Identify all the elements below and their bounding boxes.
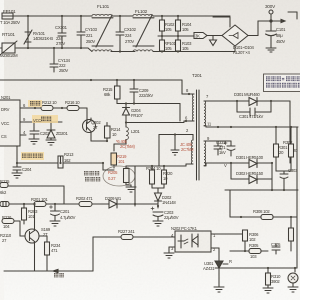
capacitor CX101 <box>58 16 66 48</box>
transformer T201 lower secondary <box>204 141 206 166</box>
resistor R301 <box>274 127 279 171</box>
wire: mid rail from pin11 <box>206 126 298 128</box>
capacitor C101 <box>266 21 277 48</box>
wire: bottom right rail <box>223 267 297 269</box>
diode D202 <box>155 193 162 208</box>
junction dots AC section <box>27 15 179 53</box>
note box <box>264 74 302 92</box>
wire: primary top rail <box>0 79 182 81</box>
transformer T201 upper secondary <box>204 101 208 127</box>
choke FL102 <box>133 14 154 51</box>
wire: into bridge <box>213 17 235 52</box>
resistor R214 <box>105 123 111 142</box>
ground aux <box>171 150 179 155</box>
resistor R308 <box>261 215 273 220</box>
capacitor C209 <box>130 80 138 95</box>
bridge rectifier D101-D104 RL207 <box>222 25 248 46</box>
yellow highlight vcc <box>32 115 58 123</box>
过流保护 <box>22 154 43 158</box>
resistor R311 <box>289 217 294 251</box>
IC N201 <box>0 100 28 146</box>
capacitor CY103 <box>77 16 85 48</box>
varistor RV101 <box>24 16 32 48</box>
resistor R212 <box>41 106 53 111</box>
capacitor C331 <box>206 141 231 155</box>
wire: drive line pin6 <box>28 107 87 109</box>
capacitor C305 <box>272 244 280 254</box>
red annotation texts <box>108 139 194 181</box>
resistor R220 <box>162 170 167 184</box>
capacitor CY134 <box>50 48 58 72</box>
wire: aux winding feed <box>159 135 193 167</box>
resistor R202 <box>79 202 92 207</box>
transistor Q202 <box>83 108 96 141</box>
yellow highlight protect <box>21 152 44 160</box>
ground below C201 <box>50 221 60 226</box>
capacitor C202 <box>30 131 39 139</box>
resistor R219 <box>111 153 117 168</box>
capacitor C302 <box>224 141 235 156</box>
note box CJK text <box>266 76 302 87</box>
choke FL101 <box>92 14 113 51</box>
ground below ZD201 <box>46 140 56 145</box>
wire: R305 line <box>230 250 268 252</box>
wire: bridge + output <box>248 19 285 35</box>
diode D301 HER5100 <box>206 160 272 168</box>
resistor R213 <box>58 156 63 168</box>
wire stub top right <box>288 12 297 19</box>
capacitor C303 <box>276 171 291 190</box>
capacitor C203 <box>151 207 163 221</box>
wire: overcurrent sense line <box>17 146 103 170</box>
wire: secondary ground rail <box>225 189 298 191</box>
resistor RP101 <box>160 36 165 52</box>
resistor R225 <box>0 183 8 188</box>
wire: mid horizontal y204 <box>4 203 158 205</box>
激励 <box>30 101 40 106</box>
稳压 bottom <box>54 273 64 277</box>
transformer T201 core <box>197 90 200 180</box>
transformer T201 primary <box>182 80 194 122</box>
resistor R104 <box>176 16 181 36</box>
diode D204 FR107 <box>123 104 130 124</box>
wire: top AC line <box>2 15 92 17</box>
wire: opto to R306 <box>222 230 245 234</box>
resistor R226 <box>2 219 25 237</box>
wire: sense node <box>103 166 135 206</box>
wire: bottom AC line <box>16 47 88 49</box>
thermistor RT101 <box>0 41 17 55</box>
电流取样电阻 <box>84 171 100 181</box>
wire: pin6 line to transformer <box>126 122 184 124</box>
resistor R204 <box>150 170 155 184</box>
resistor R302 <box>289 127 294 171</box>
wire: R204 R220 pair chain <box>135 166 186 193</box>
capacitor C201 <box>50 204 60 221</box>
wire: snubber node <box>117 95 180 121</box>
shunt regulator U301 AZ431 <box>215 248 228 287</box>
spark gap arrester <box>210 36 217 46</box>
ground below C203 <box>153 221 163 226</box>
resistor R201 <box>34 202 46 207</box>
wire: emitter to sense <box>91 140 107 142</box>
diode D301 MUR460 <box>249 98 257 106</box>
resistor R215 <box>115 80 121 99</box>
resistor R305 <box>249 249 261 254</box>
diode D209 <box>109 200 117 208</box>
transformer T201 aux winding <box>186 140 193 166</box>
fusible tag 3K <box>185 33 213 39</box>
resistor R228 left edge <box>0 202 9 207</box>
VCC供电 <box>33 117 51 124</box>
junction dots mid/bottom <box>16 79 296 269</box>
capacitor C204 <box>13 163 21 173</box>
wire: bottom long feedback <box>4 237 175 273</box>
resistor R216 <box>67 106 79 111</box>
ground below C202 <box>29 139 39 144</box>
resistor R103 <box>176 36 181 52</box>
capacitor CX102 <box>116 16 124 52</box>
connector CZ <box>288 268 298 287</box>
ground below C204 <box>12 173 22 178</box>
ellipse highlight current sense <box>103 166 135 186</box>
wire: left feedback rail <box>8 186 64 204</box>
zener ZD201 <box>47 130 55 140</box>
node 300V <box>269 10 273 22</box>
wire: right vertical bus <box>296 127 298 268</box>
wire: D301 output line <box>208 101 290 163</box>
inductor L201 <box>114 123 128 151</box>
CJK blob labels (simulated) <box>22 101 100 277</box>
resistor R234 <box>39 236 50 271</box>
resistor R203 <box>22 204 27 224</box>
resistor R306 <box>243 230 248 251</box>
ground below R310 <box>263 288 273 293</box>
ground below U301 <box>214 287 224 292</box>
ground below C101 <box>266 48 276 52</box>
ground below R205 <box>126 187 136 192</box>
wire: VCC line pin9 <box>28 122 62 131</box>
ground below connector <box>288 287 298 292</box>
resistor R205 <box>124 169 132 188</box>
diode D302 HER5150 <box>231 163 272 190</box>
resistor R102 <box>160 16 165 36</box>
resistor R310 <box>266 268 271 288</box>
transistor Q201 <box>25 204 39 252</box>
ground below opto <box>164 253 174 258</box>
yellow highlight drive <box>28 100 42 107</box>
fuse FP101 <box>2 13 13 19</box>
wire: mid divider rail <box>158 35 194 37</box>
wire: R308 line <box>230 190 297 217</box>
optocoupler N202 <box>169 231 222 253</box>
resistor R227 <box>121 235 133 240</box>
snubber C301 <box>237 101 271 116</box>
